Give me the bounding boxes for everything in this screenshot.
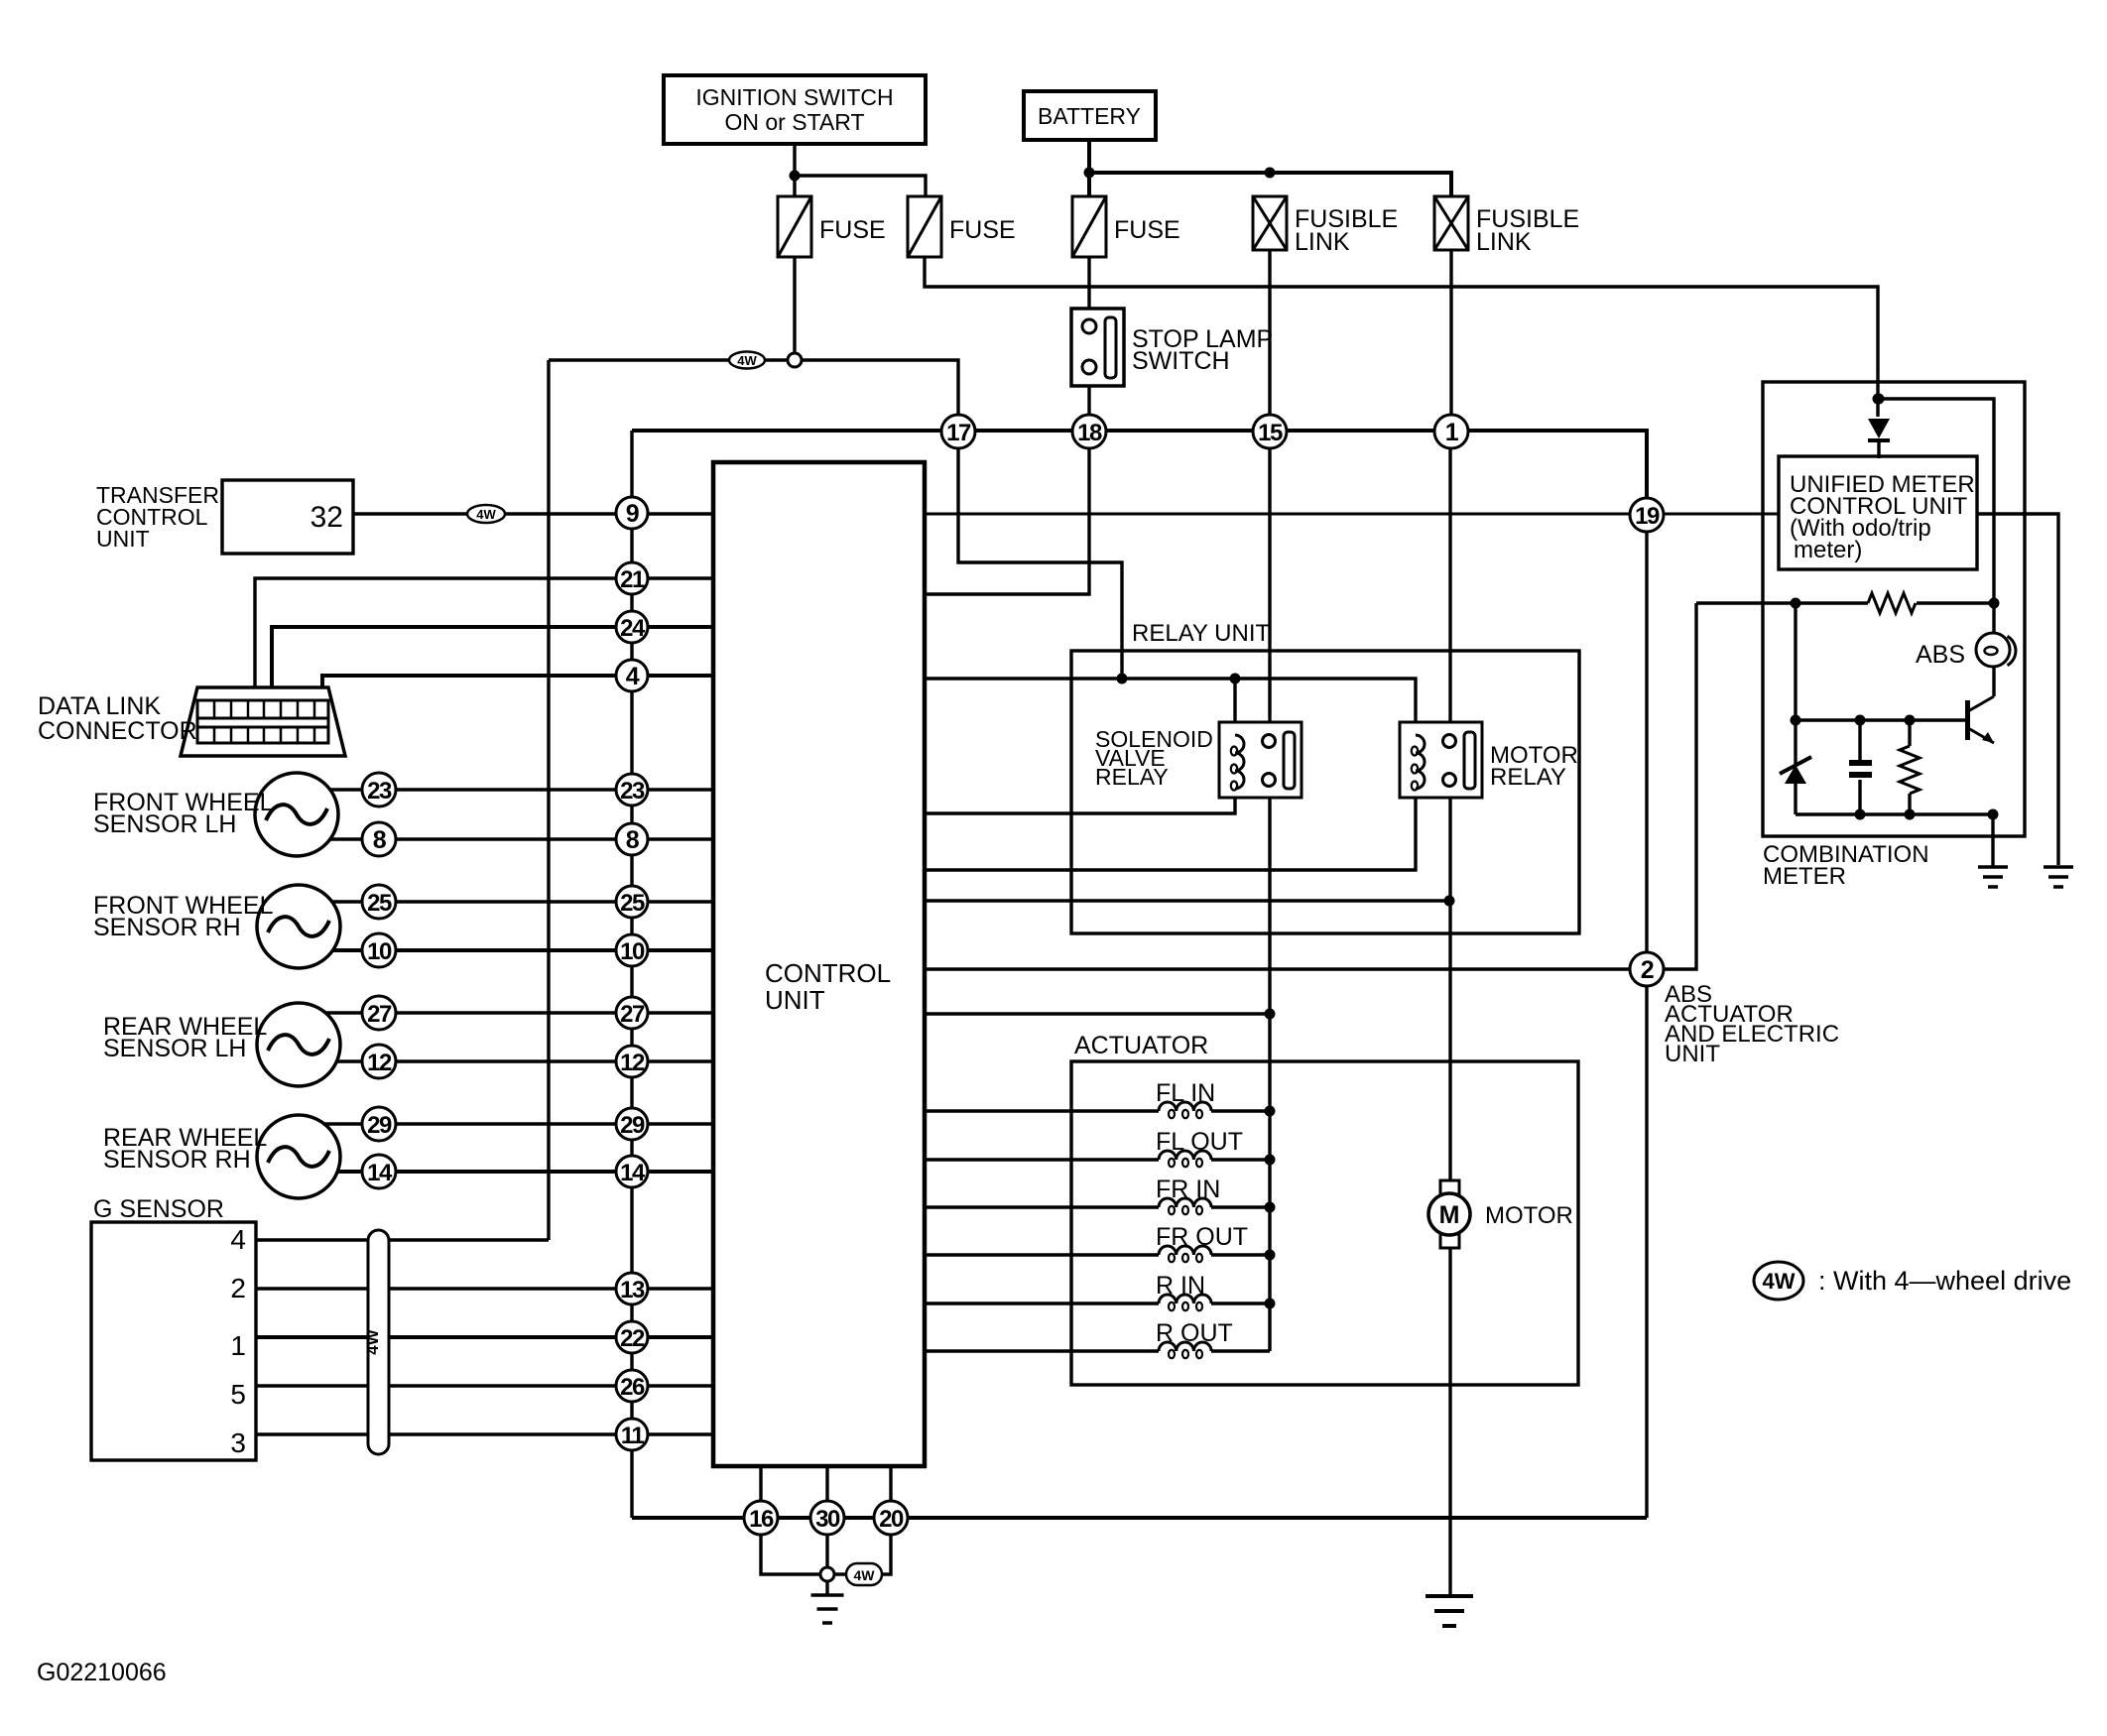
svg-text:FUSE: FUSE <box>1114 216 1180 244</box>
node actuator bus tap <box>1265 1009 1276 1020</box>
wire resistor R2 top lead <box>1908 720 1911 746</box>
wire actuator R IN to bus <box>1211 1302 1270 1304</box>
terminal 2 at (1660,977) <box>1630 952 1664 986</box>
svg-text:FUSE: FUSE <box>949 216 1016 244</box>
rear wheel sensor LH <box>257 1003 340 1086</box>
svg-text:10: 10 <box>367 938 392 965</box>
ground (combination meter) <box>1978 867 2008 887</box>
G sensor box <box>91 1222 256 1460</box>
svg-text:23: 23 <box>367 778 392 805</box>
label transfer control unit <box>96 482 219 552</box>
wire 16 to ground node <box>761 1534 821 1574</box>
fusible link FL2 <box>1434 196 1468 250</box>
wire actuator FL IN to bus <box>1211 1109 1270 1112</box>
label front wheel sensor LH <box>93 789 274 838</box>
svg-text:11: 11 <box>621 1423 645 1449</box>
svg-text:UNIT: UNIT <box>96 526 150 552</box>
node resistor row right <box>1989 598 2000 609</box>
fusible link FL1 <box>1253 196 1287 250</box>
node bottom row capacitor tap <box>1855 809 1866 820</box>
wire lamp top lead <box>1992 603 1995 634</box>
svg-text:9: 9 <box>626 500 639 528</box>
wire transistor base row <box>1796 718 1967 721</box>
terminal 21 at (637,583) <box>616 562 648 594</box>
wire fuse F3 to stop lamp switch <box>1087 257 1090 321</box>
svg-text:SENSOR LH: SENSOR LH <box>103 1035 246 1062</box>
4W marker (transfer row) <box>467 505 505 523</box>
transfer control unit box 32 <box>222 480 353 554</box>
wire fusible link FL1 to terminal 15 <box>1268 250 1271 416</box>
svg-text:4W: 4W <box>1763 1269 1796 1294</box>
node diode branch <box>1873 394 1884 405</box>
label fusible link 1 <box>1295 205 1398 256</box>
wire ignition switch to junction <box>793 144 796 196</box>
terminal 22 at (637,1348) <box>616 1321 648 1353</box>
terminal 14 at (637,1181) <box>616 1156 648 1187</box>
wire actuator FR IN from control unit <box>925 1205 1159 1208</box>
wire rear wheel sensor LH sig 27 <box>300 1011 713 1014</box>
node actuator FL IN bus junction <box>1265 1106 1276 1117</box>
svg-text:ON or START: ON or START <box>725 109 865 135</box>
svg-text:18: 18 <box>1077 420 1102 446</box>
svg-text:SENSOR RH: SENSOR RH <box>103 1146 251 1174</box>
svg-text:16: 16 <box>749 1506 774 1533</box>
inductor coil R OUT <box>1159 1342 1211 1358</box>
wire motor relay coil return to control unit <box>925 790 1416 870</box>
wire solenoid coil return to control unit <box>925 790 1235 813</box>
label abs actuator and electric unit <box>1665 981 1839 1067</box>
wire ground node stub <box>825 1580 828 1595</box>
wire actuator FR IN to bus <box>1211 1205 1270 1208</box>
svg-text:14: 14 <box>620 1160 646 1186</box>
label combination meter <box>1763 841 1929 890</box>
inductor coil FL IN <box>1159 1102 1211 1118</box>
wire terminal 9 to combination meter (19 row) <box>925 513 1779 516</box>
svg-text:FR OUT: FR OUT <box>1156 1223 1248 1251</box>
svg-text:RELAY: RELAY <box>1095 764 1169 790</box>
terminal 24 at (637,632) <box>616 611 648 643</box>
wire fuse F2 to combination meter diode <box>925 257 1878 417</box>
fuse F1 <box>778 196 811 257</box>
wire emitter to ground <box>1991 814 1994 867</box>
wire G sensor pin 2 to terminal 13 <box>256 1287 713 1290</box>
terminal 8 at (637,846) <box>616 823 648 855</box>
label stop lamp switch <box>1132 325 1273 375</box>
wire comb meter bottom row <box>1796 812 1993 815</box>
svg-text:23: 23 <box>620 778 645 805</box>
terminal 26 at (637,1397) <box>616 1370 648 1402</box>
svg-text:UNIT: UNIT <box>1665 1041 1720 1067</box>
wire front wheel sensor LH sig 23 <box>298 788 713 791</box>
wire G sensor pin 3 to terminal 11 <box>256 1432 713 1435</box>
wire bottom ground bus 16-30-20 <box>632 1516 1647 1520</box>
node battery bus / fusible link FL1 tap <box>1265 168 1276 179</box>
node open junction (fuse F1 / 4W row) <box>788 353 802 367</box>
svg-text:1: 1 <box>230 1330 246 1361</box>
stop lamp switch <box>1071 309 1124 386</box>
svg-text:20: 20 <box>879 1506 904 1533</box>
front wheel sensor LH <box>255 773 338 856</box>
data link connector <box>181 687 345 756</box>
svg-text:27: 27 <box>367 1001 392 1028</box>
terminal 23 at (637,796) <box>616 774 648 806</box>
terminal 30 at (834,1530) <box>810 1501 844 1535</box>
wire actuator FL IN from control unit <box>925 1109 1159 1112</box>
svg-text:12: 12 <box>367 1050 392 1076</box>
terminal 27 at (637,1021) <box>616 997 648 1029</box>
svg-text:29: 29 <box>620 1112 645 1139</box>
svg-text:19: 19 <box>1635 503 1660 530</box>
4W marker (ignition branch) <box>729 352 765 369</box>
svg-text:SENSOR LH: SENSOR LH <box>93 810 236 838</box>
svg-text:DATA LINK: DATA LINK <box>38 692 161 720</box>
svg-text:24: 24 <box>620 615 646 642</box>
wire terminal 18 to control unit <box>925 447 1089 594</box>
terminal 20 at (898,1530) <box>874 1501 908 1535</box>
wire control unit stub to 30 <box>825 1466 828 1502</box>
svg-text:FR IN: FR IN <box>1156 1176 1220 1203</box>
actuator box <box>1071 1061 1578 1385</box>
terminal 18 at (1098,435) <box>1072 415 1106 448</box>
ignition switch box <box>664 75 926 144</box>
wire control unit to actuator bus <box>925 1012 1270 1015</box>
wire stop lamp switch to terminal 18 <box>1087 372 1090 416</box>
svg-text:METER: METER <box>1763 863 1846 890</box>
terminal 13 at (637,1299) <box>616 1273 648 1304</box>
terminal 4 at (637,681) <box>616 660 648 691</box>
label unified meter control unit <box>1790 471 1975 563</box>
svg-text:CONTROL: CONTROL <box>765 958 891 988</box>
wire battery bus to fusible links <box>1089 173 1451 196</box>
label fusible link 2 <box>1476 205 1579 256</box>
ground (meter right) <box>2044 867 2073 887</box>
wire actuator FR OUT to bus <box>1211 1253 1270 1256</box>
relay unit box <box>1071 651 1579 933</box>
svg-text:14: 14 <box>367 1160 393 1186</box>
svg-text:13: 13 <box>620 1277 645 1303</box>
wire long 4W vertical <box>547 360 550 1240</box>
svg-text:4: 4 <box>626 663 640 690</box>
label solenoid valve relay <box>1095 726 1213 790</box>
label ignition switch <box>695 84 893 135</box>
svg-text:CONNECTOR: CONNECTOR <box>38 717 197 745</box>
node motor relay contact junction <box>1444 896 1455 907</box>
terminal 25 at (382,909) <box>362 885 396 919</box>
terminal 12 at (637,1070) <box>616 1046 648 1077</box>
transistor Q1 <box>1968 696 1995 743</box>
wire motor to ground <box>1448 1248 1451 1596</box>
zener diode ZD1 <box>1780 757 1811 784</box>
svg-text:R IN: R IN <box>1156 1272 1205 1300</box>
ABS warning lamp <box>1976 633 2016 667</box>
wire solenoid coil top <box>1233 679 1236 735</box>
wire terminal 2 to bottom bus <box>1645 986 1648 1518</box>
wire front wheel sensor RH sig 10 <box>300 948 713 952</box>
wire actuator R OUT from control unit <box>925 1349 1159 1352</box>
svg-text:4: 4 <box>230 1224 246 1255</box>
4W capsule (G sensor harness) <box>363 1230 389 1454</box>
node base row zener tap <box>1791 715 1801 726</box>
label front wheel sensor RH <box>93 892 274 941</box>
wire G sensor pin 1 to terminal 22 <box>256 1335 713 1339</box>
label data link connector <box>38 692 197 745</box>
svg-text:30: 30 <box>815 1506 840 1533</box>
svg-text:25: 25 <box>620 890 645 917</box>
svg-text:R OUT: R OUT <box>1156 1319 1233 1347</box>
svg-text:25: 25 <box>367 890 392 917</box>
svg-text:3: 3 <box>230 1427 246 1458</box>
svg-text:FL OUT: FL OUT <box>1156 1128 1243 1156</box>
svg-text:4W: 4W <box>737 353 757 368</box>
unified meter control unit box <box>1779 456 1977 569</box>
wire terminal 17 to relay unit <box>958 447 1122 676</box>
wire capacitor top lead <box>1858 720 1861 760</box>
wire actuator FL OUT from control unit <box>925 1158 1159 1161</box>
label control unit <box>765 958 891 1015</box>
wire front wheel sensor RH sig 25 <box>300 900 713 903</box>
motor relay <box>1400 722 1482 798</box>
ground (motor) <box>1425 1596 1473 1626</box>
wire actuator R IN from control unit <box>925 1302 1159 1304</box>
svg-text:RELAY UNIT: RELAY UNIT <box>1132 620 1270 647</box>
inductor coil R IN <box>1159 1295 1211 1310</box>
svg-text:2: 2 <box>1641 956 1654 984</box>
wire actuator solenoid bus vertical <box>1268 1014 1271 1351</box>
rear wheel sensor RH <box>257 1115 340 1198</box>
wire lamp to transistor collector <box>1992 666 1995 696</box>
svg-text:4W: 4W <box>854 1567 876 1583</box>
wire battery drop <box>1087 140 1091 196</box>
terminal 29 at (637,1133) <box>616 1108 648 1140</box>
inductor coil FR OUT <box>1159 1246 1211 1262</box>
svg-text:BATTERY: BATTERY <box>1038 103 1141 129</box>
svg-text:G02210066: G02210066 <box>37 1659 167 1686</box>
wire control unit stub to 16 <box>759 1466 762 1502</box>
wire G sensor pin 4 <box>256 1238 549 1241</box>
terminal 25 at (637,909) <box>616 886 648 918</box>
control unit box <box>713 462 925 1466</box>
svg-text:LINK: LINK <box>1295 228 1350 256</box>
svg-text:FL IN: FL IN <box>1156 1079 1215 1107</box>
wire left terminal column <box>630 431 633 1518</box>
inductor coil FR IN <box>1159 1198 1211 1214</box>
wire terminal 24 to data link connector <box>272 627 713 702</box>
wire terminal 21 to data link connector <box>255 578 713 702</box>
motor M <box>1428 1180 1470 1248</box>
wire diode branch to lamp column <box>1878 399 1994 603</box>
capacitor C1 <box>1849 763 1872 775</box>
wire rear wheel sensor RH sig 14 <box>300 1170 713 1174</box>
svg-text:17: 17 <box>946 420 971 446</box>
wire actuator FL OUT to bus <box>1211 1158 1270 1161</box>
node actuator FR IN bus junction <box>1265 1202 1276 1213</box>
wire control unit to motor relay contact line <box>925 899 1449 902</box>
wire comb meter resistor row right <box>1917 601 1994 604</box>
wire terminal 15 to solenoid valve relay contact <box>1268 447 1271 734</box>
wire comb meter resistor row <box>1696 601 1868 604</box>
front wheel sensor RH <box>257 885 340 968</box>
wire terminal row 17-18-15-1 <box>632 431 1647 499</box>
terminal 11 at (637,1446) <box>616 1419 648 1450</box>
svg-text:G SENSOR: G SENSOR <box>93 1195 224 1223</box>
svg-text:RELAY: RELAY <box>1490 764 1566 791</box>
svg-text:15: 15 <box>1258 420 1283 446</box>
terminal 8 at (382,846) <box>362 822 396 856</box>
resistor R2 (vertical zigzag) <box>1900 746 1920 794</box>
svg-text:SENSOR RH: SENSOR RH <box>93 914 241 941</box>
wire rear wheel sensor LH sig 12 <box>300 1059 713 1062</box>
terminal 14 at (382,1181) <box>362 1155 396 1188</box>
wire capacitor bottom lead <box>1858 780 1861 814</box>
wire terminal 1 to motor relay contact <box>1448 447 1451 734</box>
wire terminal 4 to data link connector <box>322 676 713 702</box>
node bottom row resistor tap <box>1905 809 1916 820</box>
wire resistor R2 bottom lead <box>1908 794 1911 814</box>
svg-text:4W: 4W <box>363 1328 382 1354</box>
wire control unit to terminal 2 <box>925 603 1696 969</box>
node ignition junction <box>790 171 801 182</box>
terminal 16 at (767,1530) <box>744 1501 778 1535</box>
svg-text:26: 26 <box>620 1374 645 1401</box>
wire transfer control unit to terminal 9 <box>353 512 713 515</box>
terminal 10 at (637,958) <box>616 934 648 966</box>
svg-text:M: M <box>1439 1201 1460 1229</box>
resistor R1 (horizontal zigzag) <box>1868 593 1916 613</box>
fuse F2 <box>908 196 941 257</box>
svg-text:MOTOR: MOTOR <box>1485 1202 1573 1229</box>
wire actuator FR OUT from control unit <box>925 1253 1159 1256</box>
svg-text:LINK: LINK <box>1476 228 1532 256</box>
svg-text:12: 12 <box>620 1050 645 1076</box>
node relay row / solenoid coil junction <box>1230 674 1241 684</box>
terminal 10 at (382,958) <box>362 933 396 967</box>
terminal 29 at (382,1133) <box>362 1107 396 1141</box>
wire motor relay contact to motor <box>1448 787 1451 1181</box>
solenoid valve relay <box>1219 722 1301 798</box>
svg-text:2: 2 <box>230 1273 246 1303</box>
svg-text:8: 8 <box>373 826 387 854</box>
svg-text:IGNITION SWITCH: IGNITION SWITCH <box>695 84 893 110</box>
wire 20 through 4W to ground node <box>833 1534 891 1574</box>
node battery junction <box>1084 168 1095 179</box>
svg-text:meter): meter) <box>1794 537 1862 563</box>
battery box <box>1024 91 1156 140</box>
wire G sensor pin 5 to terminal 26 <box>256 1384 713 1387</box>
svg-text:5: 5 <box>230 1379 246 1410</box>
legend 4W marker <box>1754 1262 1803 1300</box>
svg-text:27: 27 <box>620 1001 645 1028</box>
wire fuse F1 to 4W node <box>793 257 796 360</box>
wire actuator R OUT to bus <box>1211 1349 1270 1352</box>
wire front wheel sensor LH sig 8 <box>298 837 713 840</box>
terminal 17 at (966,435) <box>941 415 975 448</box>
ground (control unit) <box>811 1595 844 1623</box>
terminal 19 at (1660,519) <box>1630 498 1664 532</box>
svg-text:29: 29 <box>367 1112 392 1139</box>
svg-text:22: 22 <box>620 1325 645 1352</box>
svg-text:ACTUATOR: ACTUATOR <box>1074 1032 1208 1059</box>
node resistor row left <box>1791 598 1801 609</box>
svg-text:21: 21 <box>620 566 645 593</box>
wire unified meter unit to right ground <box>1977 514 2058 865</box>
4W marker (ground branch) <box>846 1563 882 1585</box>
wire fusible link FL2 to terminal 1 <box>1449 250 1452 416</box>
label motor relay <box>1490 742 1578 791</box>
wire junction to fuse F2 <box>795 176 926 196</box>
wire rear wheel sensor RH sig 29 <box>300 1122 713 1125</box>
diode D1 <box>1868 419 1890 440</box>
wire terminal 19 column <box>1645 532 1648 952</box>
svg-text:10: 10 <box>620 938 645 965</box>
svg-text:ABS: ABS <box>1916 641 1965 669</box>
svg-text:SWITCH: SWITCH <box>1132 347 1230 375</box>
svg-text:FUSE: FUSE <box>819 216 886 244</box>
combination meter box <box>1763 382 2025 836</box>
fuse F3 <box>1072 196 1106 257</box>
wire relay unit supply row <box>925 679 1416 734</box>
node open junction (ground node) <box>820 1567 834 1581</box>
node base row capacitor tap <box>1855 715 1866 726</box>
wire 4W branch row <box>549 360 958 416</box>
inductor coil FL OUT <box>1159 1151 1211 1167</box>
node actuator FR OUT bus junction <box>1265 1250 1276 1261</box>
terminal 15 at (1280,435) <box>1253 415 1287 448</box>
wire control unit stub to 20 <box>889 1466 892 1502</box>
node relay row / 17 junction <box>1117 674 1128 684</box>
svg-text:4W: 4W <box>476 507 496 522</box>
svg-text:32: 32 <box>310 501 343 534</box>
label rear wheel sensor RH <box>103 1124 267 1174</box>
svg-text:8: 8 <box>626 826 640 854</box>
terminal 27 at (382,1021) <box>362 996 396 1030</box>
wire zener column upper <box>1794 603 1797 764</box>
wire 30 to ground node <box>825 1534 828 1568</box>
wire zener column lower <box>1794 784 1797 814</box>
wire solenoid relay contact to actuator bus <box>1268 787 1271 1014</box>
terminal 12 at (382,1070) <box>362 1045 396 1078</box>
node actuator FL OUT bus junction <box>1265 1155 1276 1166</box>
svg-text:UNIT: UNIT <box>765 985 825 1015</box>
node actuator R IN bus junction <box>1265 1299 1276 1309</box>
terminal 9 at (637,517) <box>616 497 648 529</box>
svg-text:1: 1 <box>1445 419 1459 446</box>
node base row resistor tap <box>1905 715 1916 726</box>
svg-text:: With 4—wheel drive: : With 4—wheel drive <box>1818 1266 2071 1296</box>
terminal 1 at (1463,435) <box>1434 415 1468 448</box>
node comb meter supply <box>1874 394 1885 405</box>
terminal 23 at (382,796) <box>362 773 396 806</box>
label rear wheel sensor LH <box>103 1013 267 1062</box>
wire diode to unified meter control unit <box>1877 440 1880 458</box>
node bottom row emitter tap <box>1988 809 1999 820</box>
